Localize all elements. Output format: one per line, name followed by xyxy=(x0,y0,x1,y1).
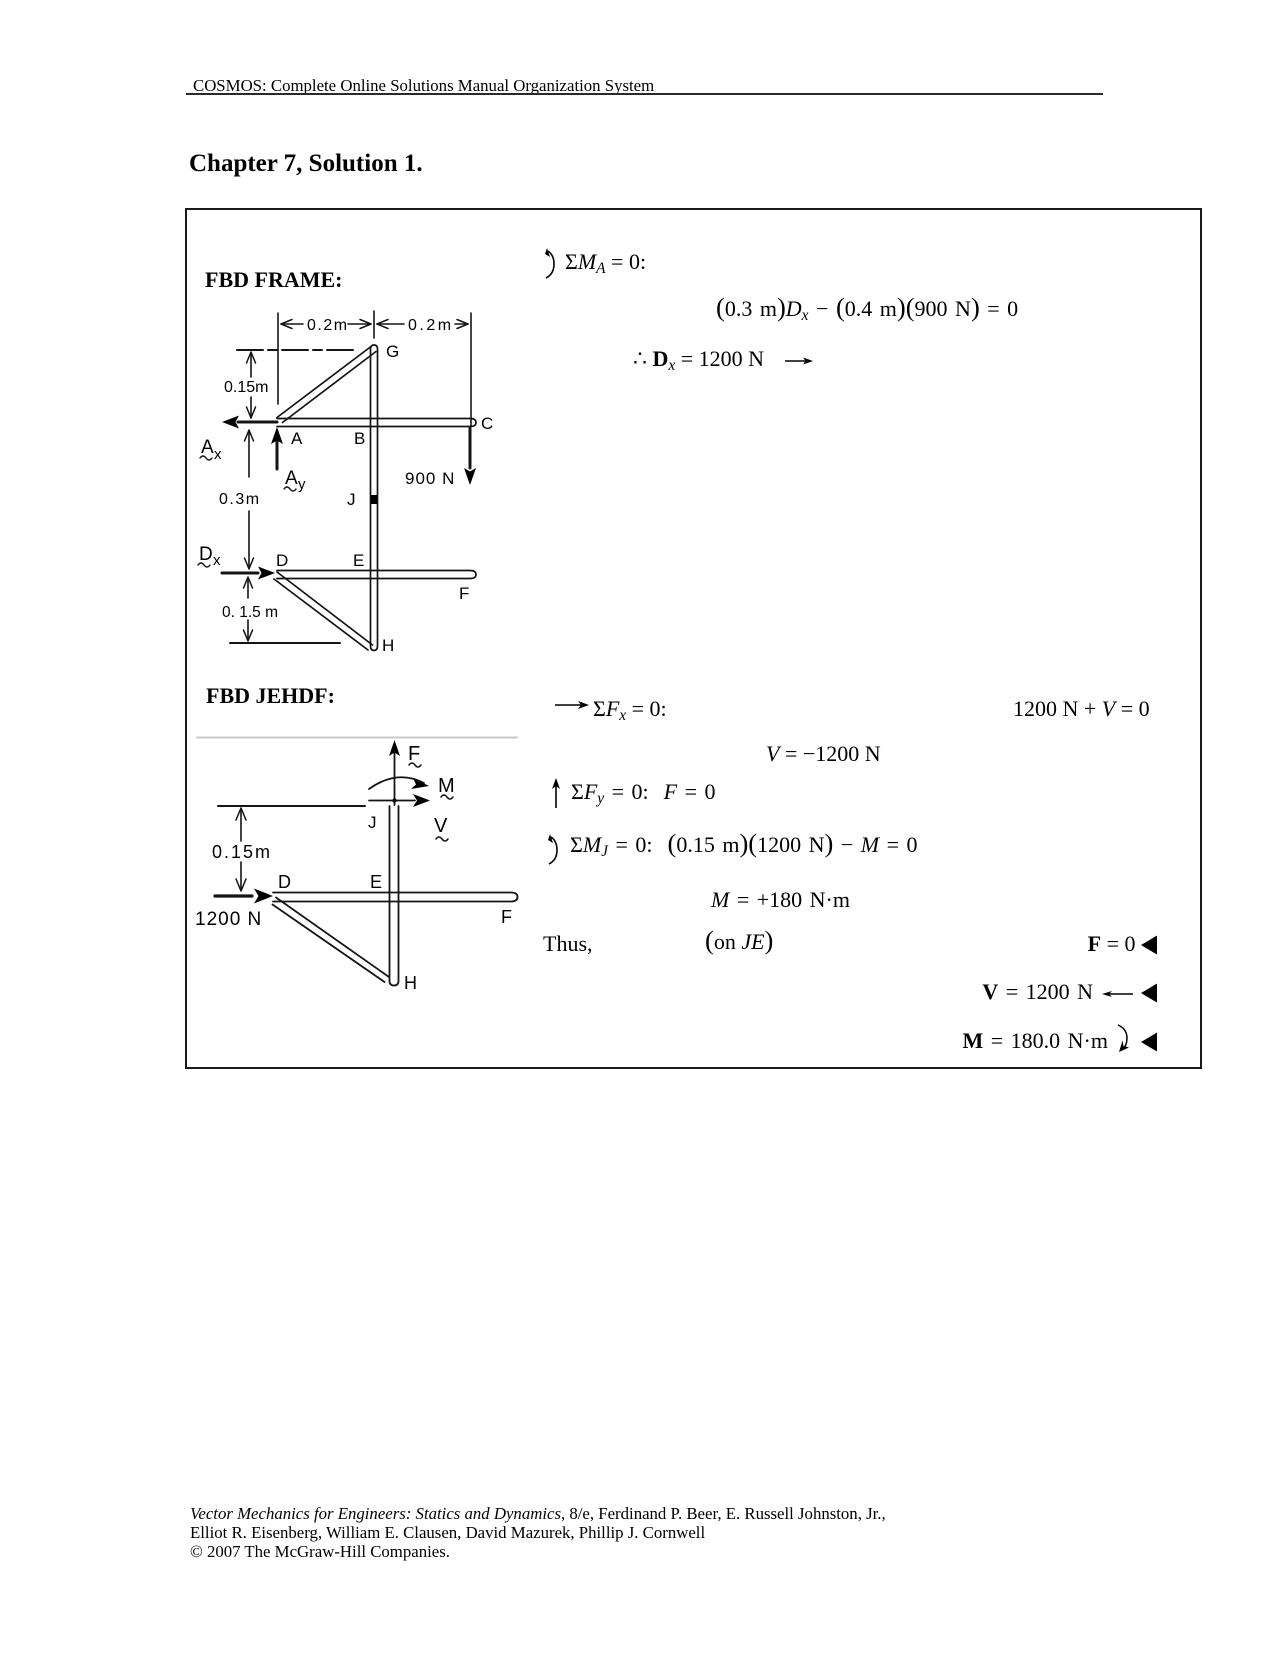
svg-text:J: J xyxy=(368,813,377,832)
force arrow Ax (left at A) xyxy=(238,421,277,424)
equation: sum MJ = 0: (0.15m)(1200N) - M = 0 xyxy=(570,832,918,858)
svg-text:E: E xyxy=(353,551,364,570)
dim 0.15m: vertical arrow line xyxy=(240,810,242,888)
svg-text:H: H xyxy=(382,636,394,655)
svg-text:0.2m: 0.2m xyxy=(408,317,454,334)
footer xyxy=(190,1504,886,1562)
force arrow Ay (up at A) xyxy=(276,441,279,469)
equation: (0.3 m)Dx - (0.4 m)(900 N) = 0 xyxy=(716,296,1018,322)
svg-text:0. 1.5 m: 0. 1.5 m xyxy=(222,604,278,621)
force arrow 1200 N (right at D) xyxy=(215,894,252,897)
top reference line (dashed) at y=350 xyxy=(237,349,357,351)
member DH (diagonal bar) xyxy=(273,898,390,983)
svg-text:0.3m: 0.3m xyxy=(219,491,261,508)
svg-text:x: x xyxy=(213,552,221,569)
force arrow Dx (right at D) xyxy=(222,572,258,575)
moment arrow icon for Sigma MJ xyxy=(543,833,567,867)
member DEF (horizontal bar) xyxy=(273,893,518,902)
svg-text:0.15m: 0.15m xyxy=(212,842,272,862)
up arrow icon for Sigma Fy xyxy=(549,777,563,809)
FBD FRAME label xyxy=(205,267,342,293)
svg-text:M: M xyxy=(438,775,455,797)
dim extension line left (x=278) xyxy=(277,313,279,404)
equation: sum Fy = 0: F = 0 xyxy=(571,779,716,805)
force arrow 900N (down at C) xyxy=(469,428,472,468)
svg-text:0.2m: 0.2m xyxy=(307,317,349,334)
solution box border xyxy=(185,208,1202,1069)
svg-text:G: G xyxy=(386,342,399,361)
svg-text:F: F xyxy=(408,743,420,765)
header text xyxy=(193,76,654,96)
member JEH (vertical bar) xyxy=(390,806,399,986)
answer V = 1200 N xyxy=(982,979,1157,1005)
svg-text:D: D xyxy=(276,551,288,570)
reference line at J level xyxy=(218,805,365,807)
svg-text:D: D xyxy=(278,872,291,892)
member ABC (horizontal bar) xyxy=(277,419,476,427)
member GJH (vertical bar) xyxy=(371,345,378,651)
member DH (diagonal bar) xyxy=(274,572,373,650)
svg-text:x: x xyxy=(214,446,222,463)
answer M = 180.0 N.m xyxy=(963,1023,1158,1055)
svg-text:J: J xyxy=(347,490,356,509)
answer F = 0 xyxy=(1088,931,1157,957)
svg-text:1200 N: 1200 N xyxy=(195,909,262,930)
title xyxy=(189,150,423,178)
FBD JEHDF label xyxy=(206,683,335,709)
svg-text:y: y xyxy=(298,476,306,493)
equation: sum MA = 0 xyxy=(565,249,646,275)
arrow: Dx direction (right) xyxy=(784,355,814,367)
svg-text:A: A xyxy=(201,437,214,458)
svg-text:F: F xyxy=(459,584,469,603)
equation: therefore Dx = 1200 N -> xyxy=(633,346,764,372)
svg-text:C: C xyxy=(481,414,493,433)
dim 0.15m upper: vertical arrow line xyxy=(250,354,252,416)
svg-text:D: D xyxy=(199,544,213,565)
dim tick center (x=374) xyxy=(373,311,375,338)
equation: V = -1200 N xyxy=(766,741,881,767)
bottom reference line xyxy=(230,642,340,644)
member AG (diagonal bar) xyxy=(277,347,376,423)
junction dot xyxy=(392,798,396,802)
member DEF (horizontal bar) xyxy=(277,571,476,579)
(on JE) xyxy=(705,929,773,955)
dim 0.3m: vertical arrow line xyxy=(248,432,250,566)
equation: sum Fx = 0 xyxy=(593,696,667,722)
svg-text:A: A xyxy=(285,468,298,489)
moment arc M xyxy=(369,777,424,789)
Thus, xyxy=(543,931,593,957)
svg-text:F: F xyxy=(501,907,512,927)
dim extension line right (x=471) xyxy=(470,313,472,426)
faint scan line xyxy=(197,737,517,739)
svg-text:B: B xyxy=(354,429,365,448)
shear arrow V (right at J cut) xyxy=(369,800,415,802)
svg-text:V: V xyxy=(434,815,448,837)
svg-text:0.15m: 0.15m xyxy=(224,379,268,396)
dim line 0.2m left segment xyxy=(281,323,371,325)
header underline xyxy=(186,93,1103,95)
svg-text:900 N: 900 N xyxy=(405,469,455,488)
equation: M = +180 N.m xyxy=(711,887,850,913)
equation: 1200 N + V = 0 xyxy=(1013,696,1150,722)
svg-text:A: A xyxy=(291,429,303,448)
svg-text:H: H xyxy=(404,973,417,993)
moment arrow icon for Sigma MA xyxy=(540,247,564,281)
dim line 0.2m right segment xyxy=(377,323,468,325)
svg-text:E: E xyxy=(370,872,382,892)
dim 0.15m lower: vertical arrow line xyxy=(247,580,249,638)
right arrow icon for Sigma Fx xyxy=(554,699,590,711)
force arrow F (up at J cut) xyxy=(394,753,396,805)
